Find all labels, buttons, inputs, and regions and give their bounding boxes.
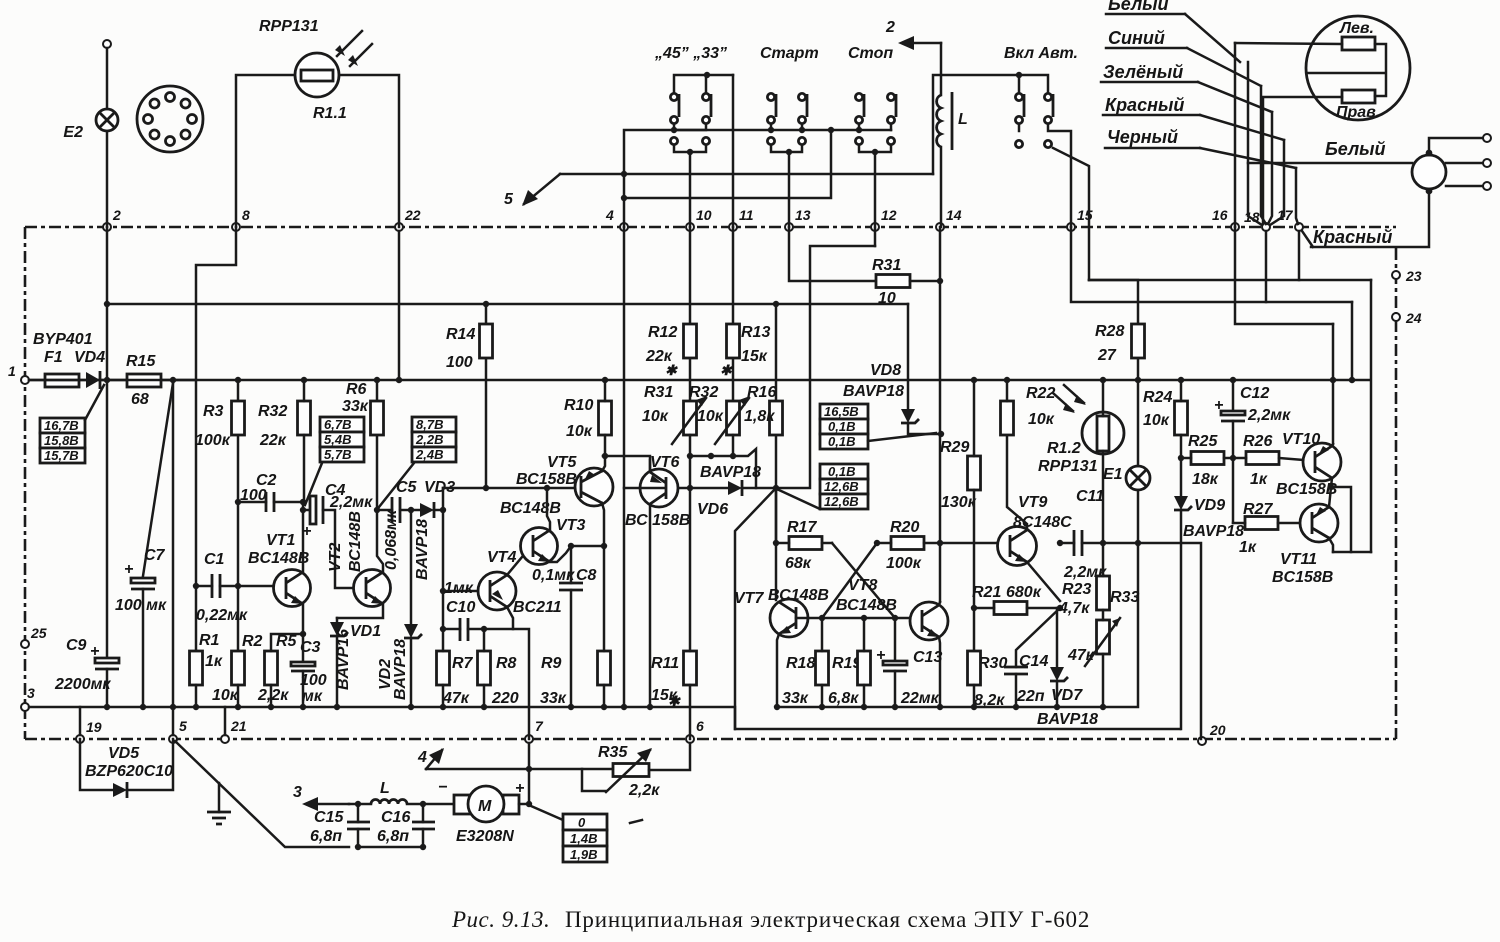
svg-text:мк: мк	[302, 688, 323, 705]
wire dashed top bus	[25, 226, 1396, 229]
svg-text:10к: 10к	[1028, 411, 1055, 428]
wire VD6 node to feedback drop	[735, 488, 776, 729]
svg-text:16: 16	[1212, 207, 1228, 223]
wire supply column x107	[106, 227, 109, 658]
svg-text:33к: 33к	[782, 690, 809, 707]
wire R35 wiper jog	[582, 769, 606, 791]
wire VT7 emitter	[777, 634, 779, 707]
wire dashed left border	[24, 227, 27, 739]
wire bundle col 2 (Belyi feed)	[1248, 62, 1262, 225]
svg-text:5: 5	[504, 191, 514, 208]
resistor R29 (130k)	[968, 456, 981, 490]
svg-text:BAVP18: BAVP18	[414, 519, 431, 580]
svg-text:BAVP18: BAVP18	[1037, 711, 1098, 728]
junction x690 y488	[687, 485, 693, 491]
leader tableB	[779, 490, 820, 509]
svg-text:BC158В: BC158В	[1272, 569, 1333, 586]
wire bundle col 5	[1270, 140, 1284, 225]
node 1	[21, 376, 29, 384]
svg-text:2200мк: 2200мк	[54, 676, 111, 693]
connector (8-pin socket)	[137, 86, 203, 152]
svg-text:2: 2	[112, 207, 121, 223]
wire cartridge Prav to bundle	[1263, 97, 1342, 224]
wire emitter rail y456	[603, 449, 756, 488]
wire y173 run to Vkl-Avt	[560, 173, 933, 176]
svg-text:✱: ✱	[665, 362, 678, 378]
svg-text:✱: ✱	[720, 362, 733, 378]
svg-text:6,7В: 6,7В	[324, 417, 351, 432]
cartridge right coil	[1342, 90, 1375, 103]
svg-text:R35: R35	[598, 744, 628, 761]
wire Belyi run to plug	[1248, 162, 1412, 165]
wire rail y380 (main supply)	[29, 379, 1370, 382]
svg-text:1,4В: 1,4В	[570, 831, 597, 846]
wire VT4 base	[443, 590, 478, 593]
svg-text:VT11: VT11	[1280, 551, 1317, 568]
svg-text:22к: 22к	[259, 432, 287, 449]
svg-text:VD7: VD7	[1051, 687, 1083, 704]
plug terminal 3	[1446, 185, 1483, 188]
svg-text:BC158В: BC158В	[1276, 481, 1337, 498]
leader table2 to VT1 collector	[305, 463, 322, 505]
svg-text:68к: 68к	[785, 555, 812, 572]
arrow 5	[524, 174, 560, 204]
svg-text:R33: R33	[1110, 589, 1139, 606]
svg-text:5: 5	[179, 718, 187, 734]
junction VD8 out	[938, 431, 944, 437]
wire E2 column	[106, 48, 109, 227]
svg-text:33к: 33к	[342, 398, 369, 415]
svg-text:R7: R7	[452, 655, 474, 672]
junction VD4 out	[104, 377, 110, 383]
svg-text:21: 21	[230, 718, 247, 734]
node 17	[1295, 223, 1303, 231]
svg-text:BYP401: BYP401	[33, 331, 93, 348]
node 7	[525, 735, 533, 743]
svg-text:Черный: Черный	[1107, 127, 1178, 147]
wire R35 to node 6	[649, 743, 690, 770]
svg-text:5,7В: 5,7В	[324, 447, 351, 462]
svg-text:VT1: VT1	[266, 532, 295, 549]
wire rail y304	[107, 303, 908, 306]
plug circle	[1412, 155, 1446, 189]
svg-text:R20: R20	[890, 519, 919, 536]
svg-text:18к: 18к	[1192, 471, 1219, 488]
svg-text:C10: C10	[446, 599, 475, 616]
svg-text:ВС148В: ВС148В	[500, 500, 561, 517]
svg-text:Стоп: Стоп	[848, 45, 893, 62]
svg-text:R1: R1	[199, 632, 220, 649]
wire VT2 emitter to VD1	[337, 604, 383, 618]
svg-text:22п: 22п	[1016, 688, 1045, 705]
wire VD6 row y488	[640, 246, 875, 488]
wire left ground rail y707	[29, 707, 1180, 729]
wire column x173 (node 5 feed)	[172, 380, 175, 707]
svg-text:100: 100	[446, 354, 473, 371]
wire diag R15 to C7	[143, 383, 173, 576]
svg-text:ВС148В: ВС148В	[347, 511, 364, 572]
svg-text:23: 23	[1405, 268, 1422, 284]
svg-text:R16: R16	[747, 384, 776, 401]
svg-text:R2: R2	[242, 633, 263, 650]
svg-text:Зелёный: Зелёный	[1103, 62, 1183, 82]
wire y552 joining	[1333, 551, 1371, 554]
wire node 17 below	[1298, 231, 1301, 280]
svg-text:R26: R26	[1243, 433, 1272, 450]
resistor R6 column	[376, 380, 379, 510]
svg-text:680к: 680к	[1006, 584, 1042, 601]
svg-text:4,7к: 4,7к	[1058, 600, 1090, 617]
wire stub node5	[172, 707, 175, 735]
node 2	[103, 223, 111, 231]
wire node 12 column	[874, 152, 877, 227]
wire bundle col 4	[1268, 112, 1272, 224]
svg-text:100: 100	[300, 672, 327, 689]
svg-text:10к: 10к	[212, 687, 239, 704]
node 16	[1231, 223, 1239, 231]
leader Chernyi	[1200, 148, 1296, 168]
diode VD9	[1180, 458, 1183, 496]
node 8	[232, 223, 240, 231]
svg-text:19: 19	[86, 719, 102, 735]
svg-text:25: 25	[30, 625, 47, 641]
node 23	[1392, 271, 1400, 279]
svg-text:−: −	[438, 779, 447, 796]
wire node8 riser	[236, 75, 295, 227]
svg-text:1,8к: 1,8к	[744, 408, 775, 425]
svg-text:C9: C9	[66, 637, 87, 654]
cartridge bracket	[1307, 44, 1386, 96]
svg-text:10к: 10к	[566, 423, 593, 440]
wire node 18 below	[1265, 231, 1268, 302]
svg-text:R32: R32	[689, 384, 718, 401]
svg-text:22мк: 22мк	[900, 690, 940, 707]
svg-text:R17: R17	[787, 519, 817, 536]
wire bundle col 6 to node 17	[1296, 168, 1298, 224]
resistor R12 column (node 10)	[689, 227, 692, 401]
svg-text:VD9: VD9	[1194, 497, 1225, 514]
junction C1 left	[193, 583, 199, 589]
svg-text:10к: 10к	[642, 408, 669, 425]
svg-text:10: 10	[696, 207, 712, 223]
plug terminal 2	[1446, 162, 1483, 165]
svg-text:+: +	[124, 561, 133, 578]
node 6	[686, 735, 694, 743]
svg-text:VT3: VT3	[556, 517, 585, 534]
svg-text:C7: C7	[144, 547, 166, 564]
wire R1.1 to node 22	[339, 75, 399, 227]
leader Sinii	[1187, 48, 1261, 86]
node 19	[76, 735, 84, 743]
junction x776 y488	[773, 485, 779, 491]
junction R15 out	[170, 377, 176, 383]
svg-text:6,8к: 6,8к	[828, 690, 859, 707]
svg-text:ВС158В: ВС158В	[516, 471, 577, 488]
svg-text:2,2мк: 2,2мк	[329, 494, 373, 511]
svg-text:Прав.: Прав.	[1336, 104, 1380, 121]
svg-text:16,7В: 16,7В	[44, 418, 79, 433]
wire VT5 collector down	[602, 503, 604, 546]
svg-text:14: 14	[946, 207, 962, 223]
wire staircase y324	[1235, 227, 1333, 324]
wire cross-coupling diagonal A	[832, 543, 895, 618]
wire VT11 collector	[1329, 538, 1333, 552]
wire right column x1352	[1351, 302, 1354, 380]
wire node4 column	[623, 227, 626, 707]
plug terminal 1	[1429, 138, 1483, 153]
node 3	[21, 703, 29, 711]
wire VT11 emitter up	[1329, 487, 1331, 507]
svg-text:✱: ✱	[668, 693, 681, 709]
junction C1/R2	[235, 583, 241, 589]
svg-text:24: 24	[1405, 310, 1422, 326]
svg-text:Синий: Синий	[1108, 28, 1165, 48]
svg-text:4: 4	[417, 749, 427, 766]
svg-text:Лев.: Лев.	[1339, 20, 1374, 37]
wire VT3 emitter row	[550, 546, 604, 562]
cartridge circle	[1306, 16, 1410, 120]
wire y769 run	[426, 768, 613, 771]
junction VD2 top	[408, 507, 414, 513]
svg-text:R31: R31	[644, 384, 673, 401]
node 5	[169, 735, 177, 743]
resistor R13 column (node 11)	[732, 227, 735, 401]
svg-text:BC211: BC211	[513, 599, 562, 616]
svg-text:10: 10	[878, 290, 896, 307]
svg-text:0: 0	[578, 815, 586, 830]
wire VT9 collector riser	[1007, 435, 1027, 530]
svg-text:R3: R3	[203, 403, 224, 420]
svg-text:0,1В: 0,1В	[828, 419, 855, 434]
junction VD3 out	[440, 507, 446, 513]
dash mark	[630, 820, 642, 823]
svg-text:17: 17	[1277, 207, 1294, 223]
svg-text:R32: R32	[258, 403, 287, 420]
voltage table (0,1В 12,6В 12,6В)	[820, 464, 868, 479]
svg-text:C16: C16	[381, 809, 410, 826]
svg-text:„45” „33”: „45” „33”	[654, 45, 727, 62]
svg-text:VD5: VD5	[108, 745, 140, 762]
svg-text:0,068мк: 0,068мк	[383, 509, 400, 570]
svg-text:L: L	[380, 780, 390, 797]
svg-text:7: 7	[535, 718, 544, 734]
svg-text:VT2: VT2	[327, 543, 344, 572]
svg-text:5,4В: 5,4В	[324, 432, 351, 447]
svg-text:BC148В: BC148В	[248, 550, 309, 567]
svg-text:BAVP18: BAVP18	[700, 464, 761, 481]
svg-text:68: 68	[131, 391, 149, 408]
wire VT3 collector	[547, 488, 550, 530]
svg-text:F1: F1	[44, 349, 63, 366]
svg-text:47к: 47к	[442, 690, 470, 707]
svg-text:R25: R25	[1188, 433, 1218, 450]
svg-text:R12: R12	[648, 324, 677, 341]
svg-text:R31: R31	[872, 257, 901, 274]
svg-text:R24: R24	[1143, 389, 1172, 406]
svg-text:C15: C15	[314, 809, 344, 826]
svg-text:22: 22	[404, 207, 421, 223]
svg-text:VT5: VT5	[547, 454, 577, 471]
junction C5 left	[374, 507, 380, 513]
svg-text:11: 11	[739, 207, 754, 223]
svg-text:13: 13	[795, 207, 811, 223]
svg-text:R30: R30	[978, 655, 1007, 672]
svg-text:27: 27	[1097, 347, 1117, 364]
wire node 13 column	[788, 152, 791, 227]
svg-text:R11: R11	[651, 655, 679, 672]
switch 45/33 top bar	[674, 75, 733, 93]
node 12	[871, 223, 879, 231]
light arrows into R1.2	[1053, 385, 1084, 411]
svg-text:R14: R14	[446, 326, 475, 343]
light arrows into R1.1	[337, 31, 372, 66]
svg-text:1: 1	[8, 363, 16, 379]
wire node 10 column	[689, 152, 692, 227]
wire node14 column	[939, 227, 942, 602]
svg-text:15,7В: 15,7В	[44, 448, 79, 463]
wire switch row to left riser	[624, 130, 674, 227]
voltage table (0 1,4В 1,9В)	[563, 814, 607, 830]
svg-text:1к: 1к	[1239, 539, 1257, 556]
svg-text:47к: 47к	[1067, 647, 1095, 664]
wire Krasnyi	[1302, 191, 1429, 247]
svg-text:2,4В: 2,4В	[415, 447, 443, 462]
lamp E2	[96, 109, 118, 131]
svg-text:R10: R10	[564, 397, 593, 414]
leader tableA	[868, 433, 936, 441]
svg-text:0,1мк: 0,1мк	[532, 567, 575, 584]
wire VT6 base	[624, 487, 664, 490]
wire VT5 base row y488	[443, 487, 575, 490]
svg-text:Красный: Красный	[1313, 227, 1392, 247]
wire staircase y302	[1071, 227, 1352, 302]
resistor R16 column	[775, 304, 778, 543]
svg-text:12,6В: 12,6В	[824, 494, 859, 509]
voltage table (16,7В 15,8В 15,7В)	[40, 418, 85, 433]
wire VT9 emitter diagonal	[1027, 562, 1060, 601]
svg-text:M: M	[478, 798, 492, 815]
svg-text:R18: R18	[786, 655, 815, 672]
switch Stop contacts	[855, 93, 862, 100]
wire cross-coupling diagonal B	[822, 543, 877, 618]
node 20	[1198, 737, 1206, 745]
junction rail380 x1352	[1349, 377, 1355, 383]
svg-text:R6: R6	[346, 381, 367, 398]
svg-text:4: 4	[605, 207, 614, 223]
wire dashed bottom border	[25, 738, 1396, 741]
switch Vkl-Avt top bar	[933, 75, 1048, 174]
wire right common rail y707	[777, 545, 1138, 707]
svg-text:E1: E1	[1103, 466, 1123, 483]
junction C2 left	[235, 499, 241, 505]
svg-text:100 мк: 100 мк	[115, 597, 167, 614]
wire node 11 column	[732, 75, 735, 227]
svg-text:20: 20	[1209, 722, 1226, 738]
svg-text:8,7В: 8,7В	[416, 417, 443, 432]
svg-text:C8: C8	[576, 567, 597, 584]
leader table to VD4 node	[85, 385, 104, 420]
wire VT6 emitter up	[649, 460, 652, 472]
wire VT7 collector column	[775, 488, 778, 600]
svg-text:Белый: Белый	[1325, 139, 1386, 159]
svg-text:10к: 10к	[697, 408, 724, 425]
svg-text:C11: C11	[1076, 488, 1104, 505]
svg-text:VT9: VT9	[1018, 494, 1047, 511]
svg-text:2,2к: 2,2к	[628, 782, 660, 799]
svg-text:R13: R13	[741, 324, 770, 341]
node 25	[21, 640, 29, 648]
svg-text:BAVP16: BAVP16	[335, 629, 352, 690]
junction rail380 x1334	[1330, 377, 1336, 383]
wire y543 run with C11	[1060, 543, 1201, 739]
wire VT4 collector to VT3 base	[507, 551, 527, 575]
svg-text:Красный: Красный	[1105, 95, 1184, 115]
ground symbol	[218, 783, 221, 812]
svg-text:R1.1: R1.1	[313, 105, 347, 122]
leader table3	[379, 463, 414, 507]
svg-text:RPP131: RPP131	[1038, 458, 1098, 475]
wire node8 step column x196	[196, 227, 236, 651]
svg-text:C1: C1	[204, 551, 225, 568]
leader motor voltage table	[531, 806, 563, 820]
wire stub node21	[224, 707, 227, 735]
node 22	[395, 223, 403, 231]
wire bundle col 3	[1261, 86, 1266, 224]
svg-text:ВС148В: ВС148В	[836, 597, 897, 614]
svg-text:VT7: VT7	[734, 590, 764, 607]
svg-text:33к: 33к	[540, 690, 567, 707]
wire VT7 base row	[796, 617, 910, 620]
svg-text:ВС 158В: ВС 158В	[625, 512, 690, 529]
wire VT8 emitter	[939, 637, 940, 707]
wire VD3 node column x443	[442, 488, 445, 629]
wire VT8 collector	[939, 602, 940, 605]
svg-text:0,1В: 0,1В	[828, 434, 855, 449]
svg-text:100к: 100к	[886, 555, 922, 572]
wire stub node19	[79, 707, 82, 735]
wire right column x1371	[1370, 280, 1373, 552]
node 14	[936, 223, 944, 231]
resistor R14 column	[485, 304, 488, 488]
node 24	[1392, 313, 1400, 321]
wire bundle to node 16	[1234, 43, 1237, 227]
svg-text:R22: R22	[1026, 385, 1055, 402]
svg-text:2,2к: 2,2к	[257, 687, 289, 704]
node12 drop column	[874, 229, 877, 246]
svg-text:R21: R21	[972, 584, 1001, 601]
node 10	[686, 223, 694, 231]
svg-text:15,8В: 15,8В	[44, 433, 79, 448]
svg-text:12: 12	[881, 207, 897, 223]
leader Zelenyi	[1198, 82, 1272, 112]
svg-text:VD4: VD4	[74, 349, 105, 366]
svg-text:6: 6	[696, 718, 704, 734]
node 4	[620, 223, 628, 231]
svg-text:220: 220	[491, 690, 519, 707]
svg-text:1к: 1к	[205, 653, 223, 670]
svg-text:BAVP18: BAVP18	[1183, 523, 1244, 540]
svg-text:0,1В: 0,1В	[828, 464, 855, 479]
svg-text:R5: R5	[276, 633, 298, 650]
switch Vkl-Avt contacts	[1015, 93, 1022, 100]
svg-text:130к: 130к	[941, 494, 977, 511]
svg-text:R28: R28	[1095, 323, 1124, 340]
wire to R28 riser	[1053, 148, 1089, 280]
svg-text:R29: R29	[940, 439, 969, 456]
svg-text:Принципиальная электрическая: Принципиальная электрическая схема ЭПУ Г…	[565, 907, 1090, 932]
svg-text:C5: C5	[396, 479, 418, 496]
svg-text:1,9В: 1,9В	[570, 847, 597, 862]
